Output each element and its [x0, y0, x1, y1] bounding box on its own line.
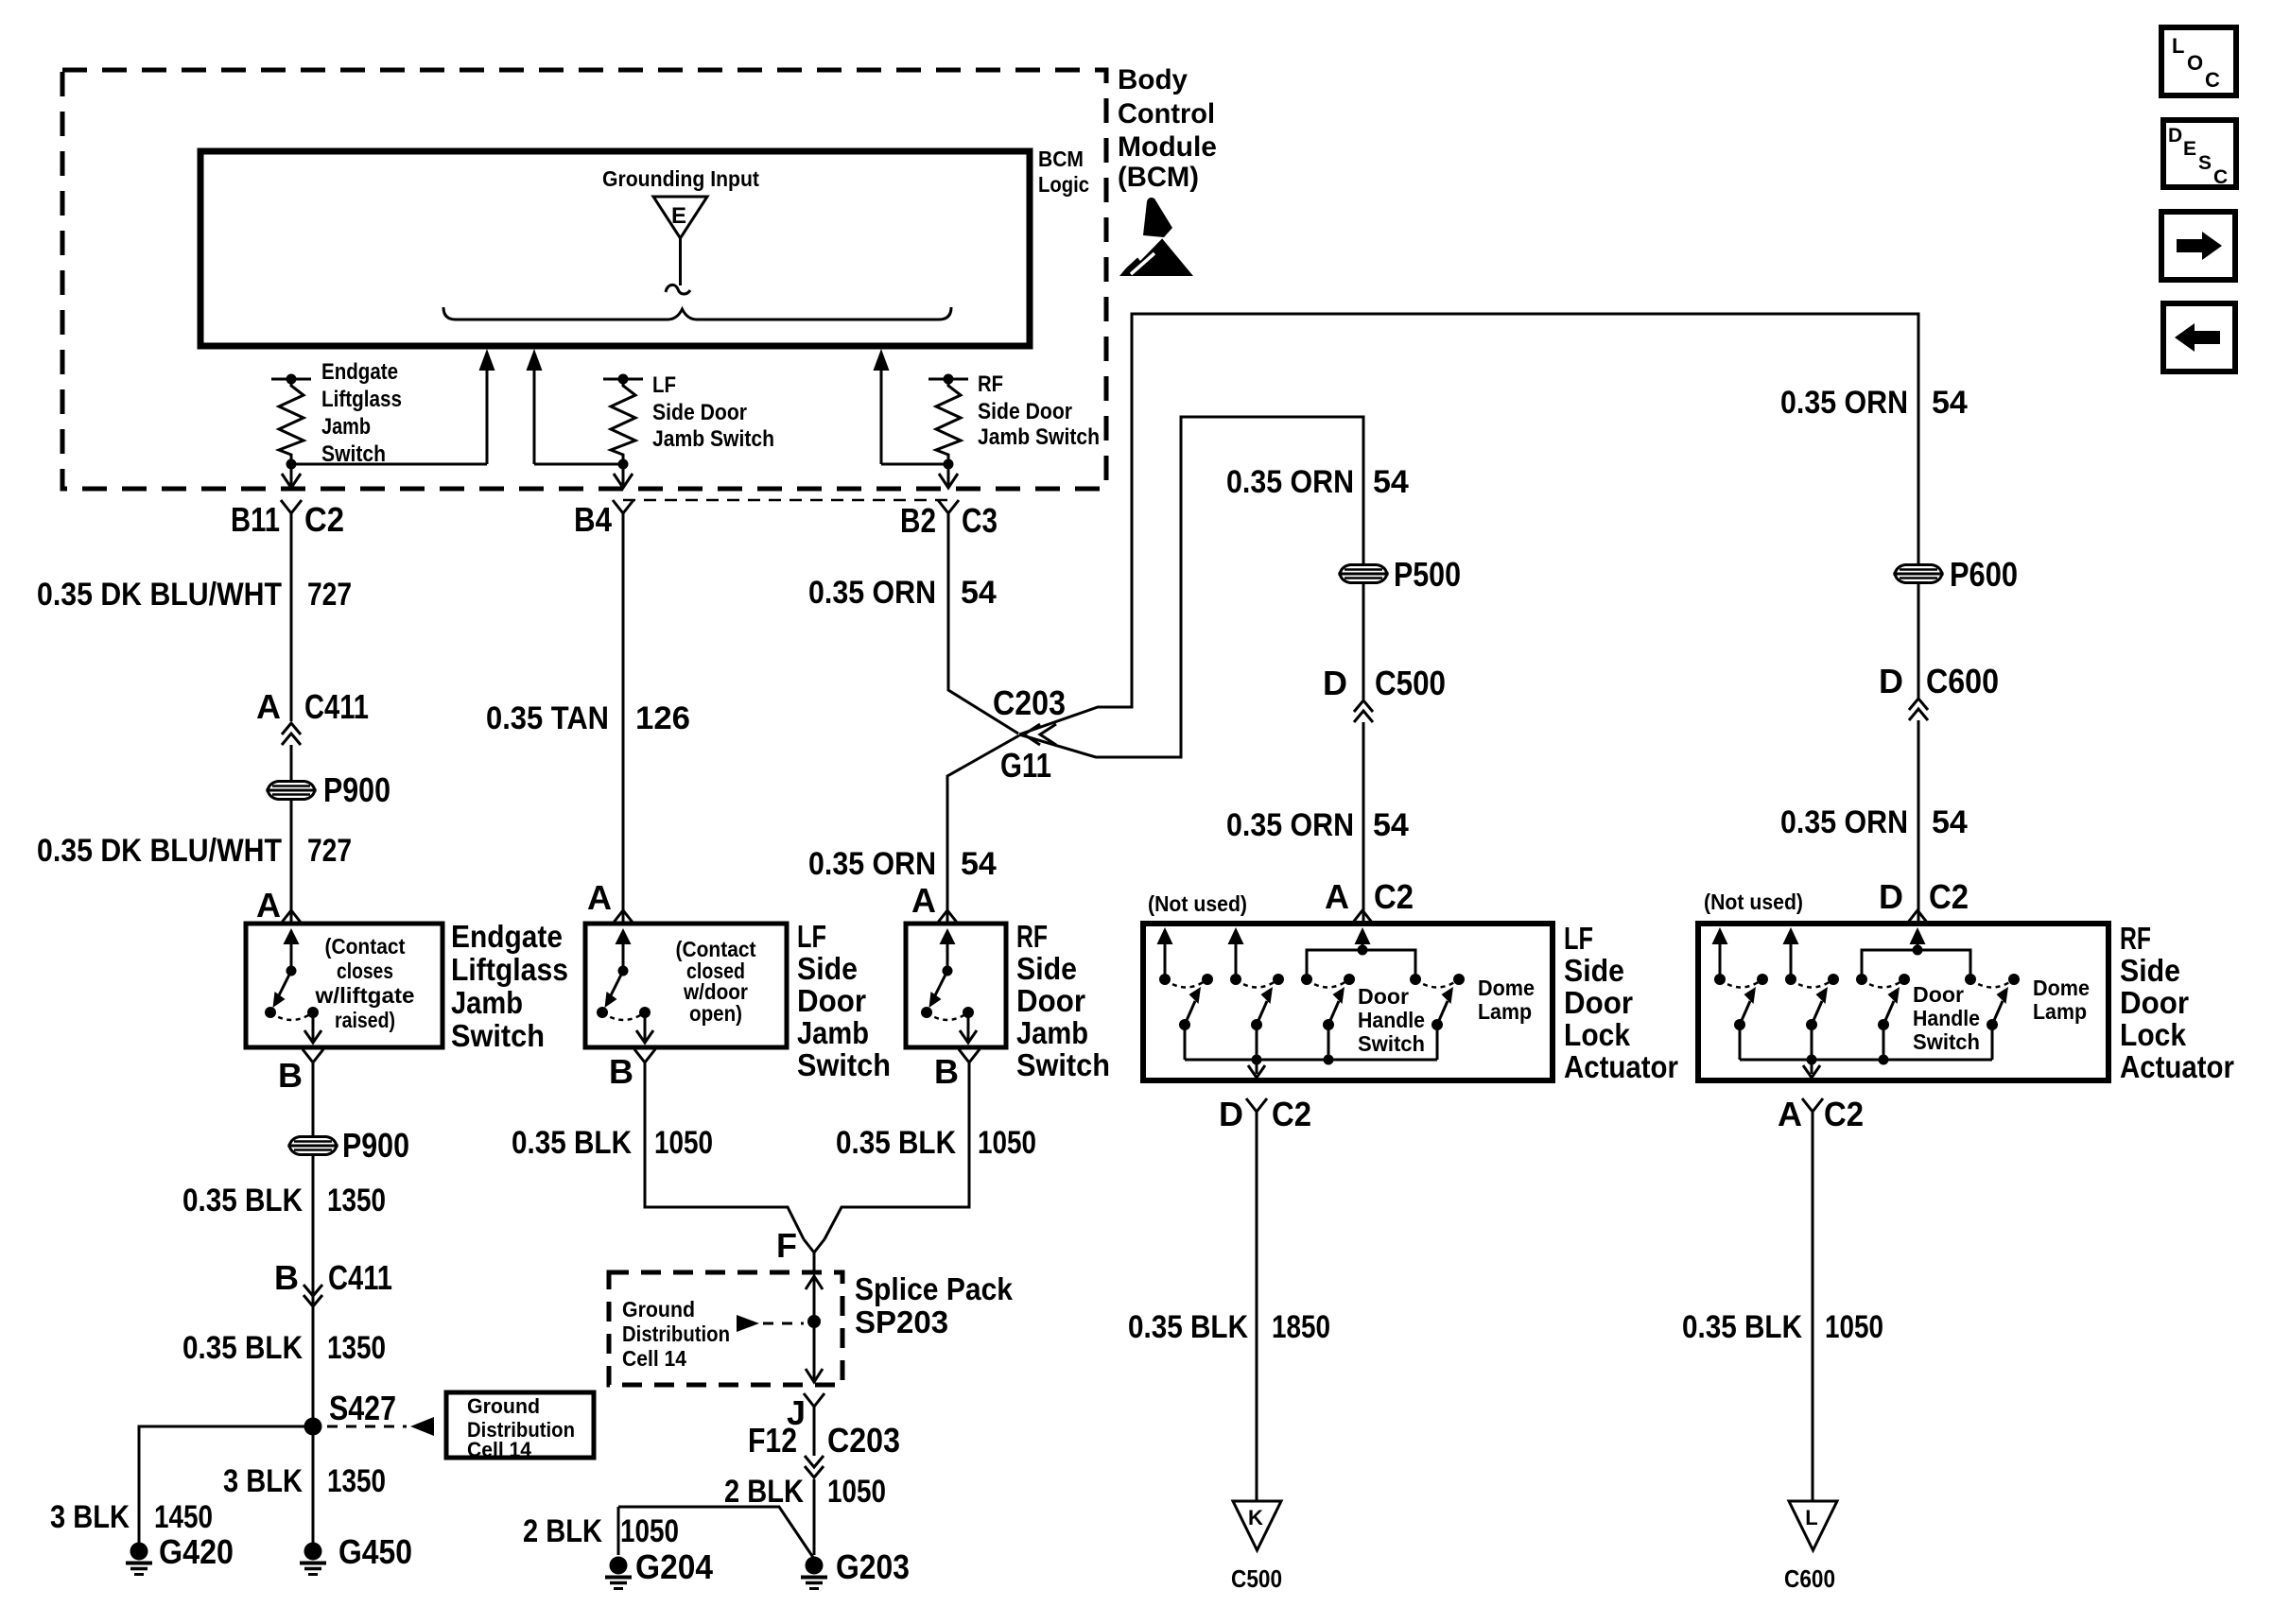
svg-text:Ground: Ground	[622, 1297, 695, 1322]
svg-text:C203: C203	[827, 1421, 900, 1460]
svg-text:G204: G204	[635, 1547, 713, 1586]
wire - switch travel arcs (dashed)	[1720, 979, 1762, 988]
svg-text:Lock: Lock	[2120, 1017, 2187, 1052]
svg-text:0.35 ORN: 0.35 ORN	[1226, 464, 1354, 500]
svg-text:Handle: Handle	[1358, 1008, 1425, 1032]
svg-text:B: B	[274, 1258, 299, 1297]
svg-text:(Contact: (Contact	[325, 934, 406, 959]
svg-text:0.35 BLK: 0.35 BLK	[1682, 1309, 1802, 1345]
wire - E terminal stem	[679, 238, 682, 285]
svg-text:(BCM): (BCM)	[1118, 162, 1199, 193]
connector C3 dashed segment	[623, 499, 948, 502]
svg-text:LF: LF	[797, 919, 826, 954]
wire - feed bracket	[1307, 950, 1415, 979]
svg-text:Endgate: Endgate	[451, 919, 563, 954]
svg-text:C2: C2	[304, 500, 344, 539]
svg-text:0.35 BLK: 0.35 BLK	[512, 1125, 632, 1161]
svg-text:SP203: SP203	[855, 1304, 948, 1339]
wire - RF resistor to BCM input	[881, 463, 948, 466]
ground G420	[130, 1543, 148, 1561]
svg-text:D: D	[1879, 662, 1903, 700]
svg-text:Side: Side	[1564, 953, 1624, 988]
svg-text:Dome: Dome	[2033, 976, 2090, 1000]
svg-text:Distribution: Distribution	[622, 1322, 730, 1346]
svg-text:Body: Body	[1118, 64, 1188, 95]
svg-text:L: L	[1805, 1506, 1817, 1529]
svg-text:C411: C411	[304, 687, 369, 726]
svg-text:C203: C203	[993, 683, 1066, 722]
svg-text:C600: C600	[1926, 662, 1999, 700]
resistor - LF Side Door Jamb Switch	[603, 378, 643, 381]
svg-text:Door: Door	[1358, 984, 1409, 1009]
svg-text:Jamb Switch: Jamb Switch	[978, 424, 1100, 450]
wire - C203 to G203	[813, 1407, 816, 1456]
svg-text:727: 727	[307, 833, 352, 869]
svg-text:w/liftgate: w/liftgate	[314, 983, 414, 1008]
svg-text:0.35 ORN: 0.35 ORN	[808, 846, 936, 882]
svg-text:F12: F12	[748, 1421, 797, 1460]
svg-text:Jamb: Jamb	[321, 414, 371, 440]
svg-text:54: 54	[1373, 464, 1409, 500]
svg-text:Liftglass: Liftglass	[321, 387, 402, 412]
inline connector P600	[1895, 565, 1942, 575]
switch blade	[1431, 1019, 1443, 1030]
svg-text:B4: B4	[574, 500, 612, 539]
svg-text:0.35 ORN: 0.35 ORN	[1226, 807, 1354, 843]
svg-text:0.35 BLK: 0.35 BLK	[836, 1125, 956, 1161]
node - contact points	[1714, 974, 1726, 985]
switch blade	[1987, 1019, 1998, 1030]
wire - LF actuator to C500 triangle	[1256, 1112, 1258, 1501]
wire - LF resistor drop to B4	[622, 464, 625, 485]
svg-text:1050: 1050	[978, 1125, 1036, 1161]
wire - switch travel arcs (dashed)	[1165, 979, 1207, 988]
svg-text:Lamp: Lamp	[1478, 999, 1532, 1024]
connector C2 pin D (LF actuator output)	[1246, 1098, 1267, 1112]
wire - C500 to LF actuator	[1362, 722, 1365, 924]
svg-text:C500: C500	[1375, 664, 1446, 702]
wire - B4 to LF jamb switch	[622, 513, 625, 924]
svg-text:A: A	[587, 878, 612, 917]
wire - B to P900 lower	[312, 1063, 315, 1137]
svg-text:0.35 BLK: 0.35 BLK	[1128, 1309, 1248, 1345]
svg-text:0.35 DK BLU/WHT: 0.35 DK BLU/WHT	[37, 577, 282, 613]
connector pin B LF jamb switch	[634, 1049, 655, 1063]
svg-text:P600: P600	[1950, 555, 2018, 594]
svg-text:(Not used): (Not used)	[1704, 890, 1803, 914]
arrowhead at crossover (second)	[1040, 724, 1056, 745]
wire - actuator output	[1256, 1060, 1258, 1074]
resistor - Endgate Liftglass Jamb Switch	[271, 378, 311, 381]
svg-text:Side Door: Side Door	[978, 399, 1072, 424]
svg-text:Liftglass: Liftglass	[451, 952, 568, 987]
svg-text:BCM: BCM	[1038, 147, 1084, 171]
BCM Logic box	[200, 151, 1030, 346]
svg-text:2 BLK: 2 BLK	[523, 1513, 602, 1549]
svg-text:Door: Door	[1913, 982, 1964, 1007]
icon back arrow	[2163, 303, 2235, 371]
switch blade	[1734, 1019, 1745, 1030]
svg-text:G420: G420	[159, 1532, 234, 1571]
svg-text:Switch: Switch	[797, 1047, 891, 1082]
svg-text:E: E	[671, 203, 686, 229]
svg-text:F: F	[776, 1226, 797, 1265]
svg-text:RF: RF	[1016, 919, 1048, 954]
switch - LF Side Door Jamb Switch	[585, 924, 787, 1047]
ground G203	[806, 1557, 824, 1575]
arrow into BCM logic	[874, 349, 890, 371]
svg-text:54: 54	[961, 575, 997, 611]
svg-text:O: O	[2187, 51, 2203, 75]
wire - not-used stub 2	[1228, 927, 1244, 944]
svg-text:Cell 14: Cell 14	[622, 1346, 686, 1371]
switch blade	[1251, 1019, 1262, 1030]
svg-text:P900: P900	[342, 1126, 409, 1165]
connector B4	[613, 500, 633, 513]
node - contact points	[1159, 974, 1171, 985]
wire - not-used stub 1	[1712, 927, 1728, 944]
connector F	[804, 1239, 824, 1253]
svg-text:Jamb: Jamb	[797, 1015, 869, 1050]
svg-text:Switch: Switch	[1016, 1047, 1110, 1082]
callout box Ground Distribution Cell 14	[446, 1392, 594, 1458]
svg-text:open): open)	[689, 1001, 742, 1026]
svg-text:1850: 1850	[1272, 1309, 1330, 1345]
switch blade	[1806, 1019, 1817, 1030]
arrow into BCM logic	[479, 349, 495, 371]
wire - RF jamb B to splice F	[824, 1063, 969, 1239]
splice pack SP203 dashed box	[609, 1272, 842, 1385]
switch blade	[1878, 1019, 1889, 1030]
grounding bus brace	[443, 307, 951, 320]
svg-text:RF: RF	[978, 371, 1003, 397]
svg-text:1050: 1050	[620, 1513, 679, 1549]
svg-text:Grounding Input: Grounding Input	[602, 166, 759, 191]
svg-text:C3: C3	[962, 501, 998, 540]
icon DESC	[2163, 120, 2236, 187]
svg-text:Jamb: Jamb	[1016, 1015, 1088, 1050]
svg-text:B: B	[609, 1052, 633, 1091]
svg-text:1350: 1350	[327, 1330, 386, 1366]
svg-text:RF: RF	[2120, 921, 2151, 956]
ESD sensitivity symbol	[1119, 232, 1193, 276]
svg-text:Lock: Lock	[1564, 1017, 1631, 1052]
svg-text:Lamp: Lamp	[2033, 999, 2087, 1024]
svg-text:C2: C2	[1929, 877, 1969, 916]
wire - P900 to endgate switch	[290, 799, 293, 924]
off-page connector K to C500	[1233, 1501, 1281, 1550]
svg-text:Door: Door	[1016, 983, 1085, 1018]
svg-text:Ground: Ground	[467, 1394, 540, 1418]
svg-text:1350: 1350	[327, 1183, 386, 1218]
svg-text:Cell 14: Cell 14	[467, 1438, 532, 1461]
svg-text:A: A	[256, 687, 281, 726]
wire - endgate resistor drop to B11	[290, 464, 293, 485]
svg-text:D: D	[2168, 125, 2182, 147]
svg-text:C2: C2	[1824, 1095, 1864, 1133]
svg-text:B: B	[934, 1052, 959, 1091]
svg-text:Jamb Switch: Jamb Switch	[652, 426, 774, 452]
wire - LF jamb B to splice F	[645, 1063, 804, 1239]
connector C2 pin A (RF actuator output)	[1802, 1098, 1823, 1112]
svg-text:727: 727	[307, 577, 352, 613]
wire - not-used stub 2	[1783, 927, 1799, 944]
svg-text:Actuator: Actuator	[2120, 1049, 2234, 1084]
wire - not-used stub 1	[1157, 927, 1173, 944]
svg-text:C2: C2	[1374, 877, 1414, 916]
svg-text:closes: closes	[337, 959, 393, 983]
splice S427	[304, 1418, 322, 1436]
svg-text:1350: 1350	[327, 1463, 386, 1499]
ground G204	[610, 1557, 628, 1575]
wire - C411 to P900	[290, 745, 293, 782]
svg-text:S427: S427	[329, 1389, 396, 1427]
svg-text:Splice Pack: Splice Pack	[855, 1271, 1014, 1306]
svg-text:Endgate: Endgate	[321, 359, 398, 385]
wire - endgate resistor to BCM input	[291, 463, 487, 466]
svg-text:B2: B2	[900, 501, 936, 540]
resistor - RF Side Door Jamb Switch	[928, 378, 968, 381]
wire - C600 to RF actuator	[1917, 720, 1920, 924]
inline connector P900	[268, 782, 315, 791]
wire - crossover upper right arm to BCM branch	[1019, 314, 1918, 734]
inline connector P900 (lower)	[289, 1137, 337, 1147]
inline connector P500	[1340, 565, 1387, 575]
svg-text:G11: G11	[1000, 746, 1051, 785]
svg-text:A: A	[1778, 1095, 1802, 1133]
svg-text:A: A	[911, 881, 936, 920]
ground G450	[304, 1543, 322, 1561]
wire - splice pack internal	[806, 1276, 823, 1289]
svg-text:K: K	[1248, 1506, 1263, 1529]
wire - P600 to C600	[1917, 582, 1920, 700]
svg-text:P500: P500	[1394, 555, 1461, 594]
svg-text:Dome: Dome	[1478, 976, 1535, 1000]
svg-text:E: E	[2183, 138, 2196, 160]
svg-text:C411: C411	[328, 1258, 392, 1297]
wire break squiggle	[666, 285, 690, 294]
svg-text:0.35 BLK: 0.35 BLK	[182, 1183, 303, 1218]
svg-text:S: S	[2198, 152, 2212, 174]
svg-text:LF: LF	[652, 372, 676, 398]
switch - RF Side Door Jamb Switch	[906, 924, 1006, 1047]
wire - branch to G204	[617, 1507, 620, 1555]
svg-text:1050: 1050	[827, 1474, 886, 1510]
svg-text:Side: Side	[2120, 953, 2180, 988]
svg-text:Door: Door	[1564, 985, 1633, 1020]
svg-text:54: 54	[961, 846, 997, 882]
arrow into BCM logic	[527, 349, 543, 371]
svg-text:D: D	[1879, 877, 1903, 916]
svg-text:Logic: Logic	[1038, 172, 1089, 197]
wire - crossover lower right arm to LF actuator branch	[1019, 417, 1363, 757]
svg-text:L: L	[2172, 34, 2184, 58]
connector B2 C3	[938, 500, 959, 513]
svg-text:1050: 1050	[1825, 1309, 1883, 1345]
icon forward arrow	[2161, 212, 2235, 280]
wire - S427 branch to G420	[139, 1426, 313, 1555]
svg-text:Actuator: Actuator	[1564, 1049, 1678, 1084]
wire - RF actuator to C600 triangle	[1812, 1112, 1814, 1501]
wire - P900 to S427 and G450	[312, 1154, 315, 1555]
svg-text:C2: C2	[1272, 1095, 1311, 1133]
connector J	[804, 1393, 824, 1407]
svg-text:3 BLK: 3 BLK	[50, 1499, 130, 1535]
svg-text:D: D	[1323, 664, 1347, 702]
switch blade	[1179, 1019, 1190, 1030]
icon LOC	[2161, 27, 2236, 95]
svg-text:Switch: Switch	[1913, 1029, 1980, 1054]
svg-text:Side Door: Side Door	[652, 400, 747, 425]
svg-text:2 BLK: 2 BLK	[724, 1474, 804, 1510]
wire - B2 to crossover	[948, 513, 1018, 734]
svg-text:Door: Door	[797, 983, 866, 1018]
wire - RF resistor drop to B2	[947, 464, 950, 485]
switch blade	[1323, 1019, 1334, 1030]
svg-text:Switch: Switch	[451, 1018, 545, 1053]
connector pin B endgate switch	[303, 1049, 323, 1063]
svg-text:G203: G203	[836, 1547, 910, 1586]
connector pin B RF jamb switch	[959, 1049, 980, 1063]
svg-text:0.35 BLK: 0.35 BLK	[182, 1330, 303, 1366]
svg-text:LF: LF	[1564, 921, 1593, 956]
svg-text:Jamb: Jamb	[451, 985, 523, 1020]
svg-text:C: C	[2205, 68, 2220, 92]
switch - Endgate Liftglass Jamb Switch	[246, 924, 442, 1047]
svg-text:A: A	[256, 886, 281, 924]
reference pointer inside splice pack	[737, 1315, 759, 1332]
svg-text:B: B	[278, 1056, 303, 1095]
grounding input terminal E	[653, 197, 707, 238]
svg-text:C600: C600	[1784, 1564, 1835, 1593]
svg-text:raised): raised)	[335, 1008, 395, 1032]
wire - common bus	[1740, 1059, 1992, 1062]
off-page connector L to C600	[1789, 1501, 1837, 1550]
wire - actuator output	[1811, 1060, 1813, 1074]
svg-text:0.35 ORN: 0.35 ORN	[808, 575, 936, 611]
svg-text:C500: C500	[1231, 1564, 1282, 1593]
svg-text:P900: P900	[323, 770, 390, 809]
svg-text:54: 54	[1932, 804, 1968, 840]
wire - common bus	[1185, 1059, 1437, 1062]
svg-text:126: 126	[635, 700, 690, 736]
svg-text:Handle: Handle	[1913, 1006, 1980, 1030]
actuator - LF Side Door Lock Actuator	[1143, 924, 1553, 1080]
svg-text:1050: 1050	[654, 1125, 713, 1161]
svg-text:0.35 TAN: 0.35 TAN	[486, 700, 609, 736]
wire - B11 to C411	[290, 513, 293, 721]
svg-text:D: D	[1219, 1095, 1243, 1133]
wire - feed bracket	[1862, 950, 1970, 979]
reference pointer to Ground Distribution Cell 14	[327, 1425, 407, 1428]
svg-text:Module: Module	[1118, 131, 1217, 163]
svg-text:Switch: Switch	[1358, 1031, 1425, 1056]
svg-text:Side: Side	[1016, 951, 1077, 986]
arrowhead at crossover	[1024, 724, 1040, 745]
svg-text:54: 54	[1373, 807, 1409, 843]
svg-text:A: A	[1325, 877, 1349, 916]
svg-text:0.35 DK BLU/WHT: 0.35 DK BLU/WHT	[37, 833, 282, 869]
wire - crossover to RF jamb switch	[947, 735, 1019, 924]
svg-text:Door: Door	[2120, 985, 2189, 1020]
svg-text:3 BLK: 3 BLK	[223, 1463, 303, 1499]
svg-text:B11: B11	[231, 500, 280, 539]
svg-text:Side: Side	[797, 951, 858, 986]
BCM module dashed boundary	[62, 70, 1106, 489]
svg-text:(Not used): (Not used)	[1148, 891, 1247, 916]
wire - P500 to C500	[1362, 582, 1365, 700]
connector B11 C2	[281, 500, 302, 513]
actuator - RF Side Door Lock Actuator	[1698, 924, 2108, 1080]
svg-text:1450: 1450	[154, 1499, 213, 1535]
svg-text:C: C	[2213, 166, 2228, 188]
wire - F into splice pack	[813, 1253, 816, 1274]
svg-text:54: 54	[1932, 385, 1968, 421]
svg-text:0.35 ORN: 0.35 ORN	[1780, 804, 1908, 840]
svg-text:0.35 ORN: 0.35 ORN	[1780, 385, 1908, 421]
svg-text:G450: G450	[338, 1532, 412, 1571]
svg-text:Control: Control	[1118, 98, 1215, 130]
wire - LF resistor to BCM input	[534, 463, 623, 466]
